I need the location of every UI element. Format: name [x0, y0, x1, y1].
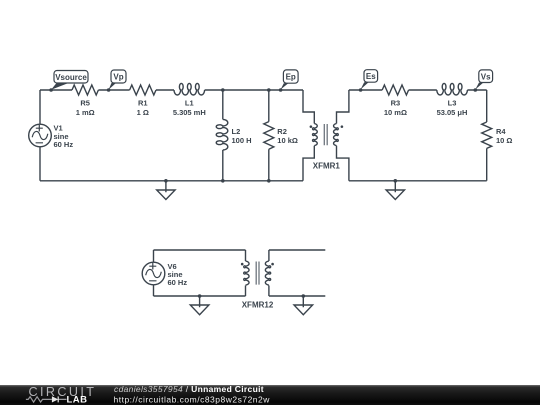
svg-text:LAB: LAB	[67, 395, 88, 405]
svg-text:http://circuitlab.com/c83p8w2s: http://circuitlab.com/c83p8w2s72n2w	[114, 395, 271, 405]
svg-text:cdaniels3557954 / Unnamed Circ: cdaniels3557954 / Unnamed Circuit	[114, 384, 264, 394]
